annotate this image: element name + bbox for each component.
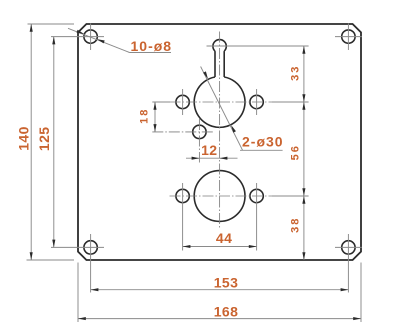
leader 2-ø30 diameter line through upper circle <box>201 67 243 151</box>
hole bottom-right corner <box>342 241 355 254</box>
hole top-right corner <box>342 30 355 43</box>
svg-text:168: 168 <box>214 303 239 319</box>
hole bottom-left corner <box>84 241 97 254</box>
dim 140 line <box>30 24 32 260</box>
hole left of upper circle <box>176 95 189 108</box>
dim 18 extension top <box>152 101 170 103</box>
svg-text:44: 44 <box>216 230 232 246</box>
centerline upper hole row <box>170 101 273 103</box>
dim 168 line <box>78 318 361 320</box>
svg-text:18: 18 <box>138 108 150 124</box>
dim 125 line <box>53 37 55 248</box>
vertical centerline axis <box>219 32 221 230</box>
svg-text:12: 12 <box>201 142 217 158</box>
hole right of upper circle <box>250 95 263 108</box>
dim 12 line with outside arrows <box>186 157 238 159</box>
plate outline with chamfered corners <box>78 24 361 260</box>
dim 18 line <box>154 102 156 132</box>
dim 168 extension left <box>77 263 79 323</box>
crosshair vertical upper-right hole <box>256 89 258 115</box>
centerline lower hole row <box>170 195 273 197</box>
leader 10-ø8 diameter line through TL hole <box>68 28 130 52</box>
svg-text:10-ø8: 10-ø8 <box>131 38 173 54</box>
svg-text:125: 125 <box>36 127 52 152</box>
svg-text:140: 140 <box>15 126 31 151</box>
crosshair vertical upper-left hole <box>182 89 184 115</box>
svg-text:56: 56 <box>289 144 301 160</box>
dim 44 line <box>183 246 257 248</box>
hole top-left corner <box>84 30 97 43</box>
dim 140 extension bottom <box>27 259 75 261</box>
centerline top small hole <box>207 45 309 47</box>
centerline below-left hole vertical <box>198 119 200 163</box>
hole left of lower circle <box>176 189 189 202</box>
hole below-left of upper circle <box>193 125 206 138</box>
svg-text:2-ø30: 2-ø30 <box>242 134 284 150</box>
keyhole slot: upper circle ø30 with neck to ø8 hole <box>194 77 245 127</box>
hole right of lower circle <box>250 189 263 202</box>
crosshair vertical lower-right side hole (extends to 44 dim) <box>256 183 258 251</box>
right chained dim line 33/56/38 <box>303 46 305 260</box>
lower circle ø30 <box>194 171 245 222</box>
svg-text:38: 38 <box>289 217 301 233</box>
dim 153 line <box>91 289 349 291</box>
centerline below-left hole horizontal <box>152 131 213 133</box>
crosshair TL corner hole <box>90 24 92 51</box>
crosshair TR corner hole <box>347 24 349 51</box>
svg-text:33: 33 <box>289 65 301 81</box>
dim 140 extension top <box>28 23 75 25</box>
crosshair vertical lower-left side hole (extends to 44 dim) <box>182 183 184 251</box>
crosshair BR corner hole (extends to 153 dim) <box>347 234 349 293</box>
dim 168 extension right <box>360 263 362 323</box>
crosshair BL corner hole (extends to 153 dim) <box>90 234 92 293</box>
svg-text:153: 153 <box>214 275 239 291</box>
